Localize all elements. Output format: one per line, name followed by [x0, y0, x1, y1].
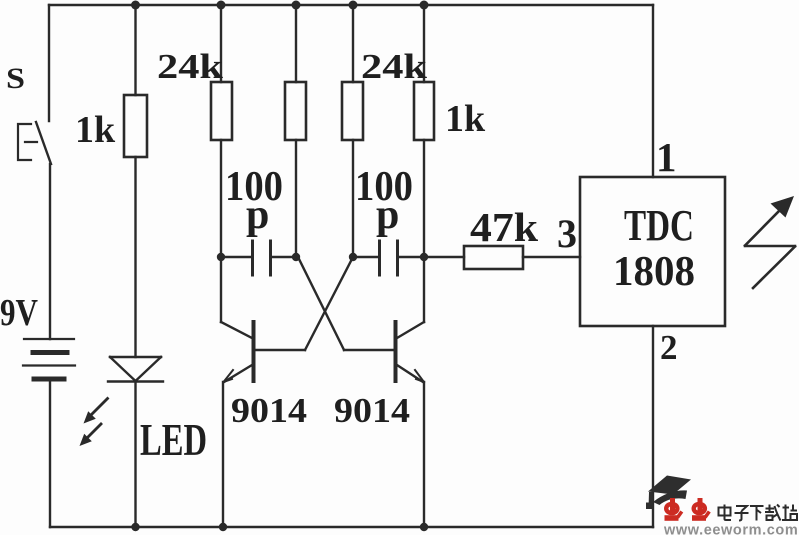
svg-text:www.eeworm.com: www.eeworm.com	[663, 523, 798, 535]
wire Q2 emitter to bottom bus	[423, 382, 425, 527]
wire column4 top (bus to R 24k)	[352, 5, 354, 82]
wire top bus	[49, 4, 653, 6]
capacitor C1 100p	[221, 241, 296, 275]
resistor R 24k (Q2 base)	[285, 82, 306, 140]
wire Q1 base cross-coupling to node C	[305, 257, 353, 350]
wire left rail upper	[48, 5, 50, 121]
wire column1 middle (R 1k to LED)	[134, 157, 136, 357]
svg-text:47k: 47k	[470, 204, 538, 250]
watermark character 载	[765, 505, 781, 521]
svg-text:24k: 24k	[157, 47, 224, 86]
svg-text:9014: 9014	[334, 391, 410, 430]
svg-text:3: 3	[557, 211, 577, 256]
wire column5 middle (R 1k to node D)	[423, 140, 425, 257]
svg-text:S: S	[6, 62, 25, 95]
watermark character 虫 (second, red)	[692, 498, 709, 518]
svg-text:1k: 1k	[445, 98, 486, 140]
IC U1 TDC1808	[580, 177, 725, 326]
wire column2 middle (R 24k to node A)	[220, 140, 222, 257]
svg-text:1808: 1808	[613, 249, 695, 295]
wire R 47k to TDC1808 pin 3	[523, 256, 580, 258]
resistor R 47k	[464, 246, 523, 269]
svg-text:LED: LED	[140, 414, 207, 465]
wire column2 lower (node A to Q1 collector)	[220, 257, 222, 322]
watermark character 站	[782, 505, 797, 521]
wire column3 top (bus to R 24k)	[295, 5, 297, 82]
svg-text:1k: 1k	[75, 109, 116, 151]
resistor R 1k (LED limiter)	[124, 95, 147, 157]
junction node dots	[131, 1, 429, 532]
svg-text:p: p	[376, 192, 399, 238]
wire bottom bus	[50, 526, 653, 528]
svg-text:1: 1	[656, 134, 677, 180]
capacitor C2 100p	[353, 241, 424, 275]
wire node D to R 47k	[424, 256, 464, 258]
svg-text:24k: 24k	[361, 47, 428, 86]
resistor R 24k (Q1 collector)	[211, 82, 232, 140]
svg-text:TDC: TDC	[624, 201, 694, 250]
resistor R 24k (Q1 base)	[342, 82, 363, 140]
wire column1 top (bus to R 1k)	[134, 5, 136, 95]
wire column1 bottom (LED to bottom bus)	[134, 382, 136, 528]
switch S actuator bracket	[18, 124, 37, 160]
battery B1 9V	[23, 339, 75, 379]
svg-text:2: 2	[660, 328, 678, 367]
watermark character 虫 (first, red)	[665, 498, 682, 518]
watermark character 子	[735, 506, 749, 521]
svg-text:9014: 9014	[231, 391, 307, 430]
LED light arrows	[89, 399, 108, 437]
watermark character 下	[750, 506, 764, 521]
svg-text:9V: 9V	[0, 292, 38, 334]
wire column5 lower (node D to Q2 collector)	[423, 257, 425, 322]
watermark graduation cap logo	[646, 476, 691, 510]
transistor Q1 9014	[221, 322, 305, 382]
wire column4 middle (R to node C)	[352, 140, 354, 257]
transistor Q2 9014	[344, 322, 424, 382]
infrared emission arrow (zigzag)	[745, 210, 795, 288]
watermark character 电	[719, 505, 732, 521]
wire TDC1808 pin 2 to bottom bus	[652, 326, 654, 527]
switch S blade	[36, 122, 51, 164]
svg-text:p: p	[246, 192, 269, 238]
wire column5 top (bus to R 1k)	[423, 5, 425, 82]
wire TDC1808 pin 1 to top bus	[652, 5, 654, 177]
LED D1	[108, 357, 163, 382]
wire left rail middle (switch to battery)	[49, 164, 51, 339]
wire Q2 base cross-coupling to node B	[298, 257, 344, 350]
resistor R 1k (Q2 collector)	[414, 82, 434, 140]
wire left rail lower (battery to bottom bus)	[49, 379, 51, 527]
wire column3 middle (R to node B)	[295, 140, 297, 257]
wire column2 top (bus to R 24k)	[220, 5, 222, 82]
wire Q1 emitter to bottom bus	[222, 382, 224, 527]
